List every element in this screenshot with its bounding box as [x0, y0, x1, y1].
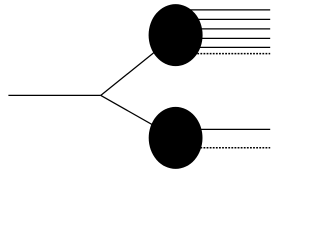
wire: incoming horizontal line: [8, 94, 100, 96]
wire: top outgoing line 3: [176, 28, 271, 30]
wire: top dotted outgoing line: [176, 53, 271, 55]
node: top blob (filled ellipse): [149, 4, 203, 66]
wire: top outgoing line 1: [176, 9, 271, 11]
node: bottom blob (filled ellipse): [149, 107, 203, 169]
wire: top outgoing line 4: [176, 37, 271, 39]
wire: lower diagonal branch to bottom blob: [101, 95, 176, 137]
wire: top outgoing line 2: [176, 18, 271, 20]
wire: bottom dotted outgoing line: [176, 147, 271, 149]
wire: bottom outgoing solid line: [176, 128, 271, 130]
wire: top outgoing line 5: [176, 46, 271, 48]
wire: upper diagonal branch to top blob: [101, 35, 176, 95]
